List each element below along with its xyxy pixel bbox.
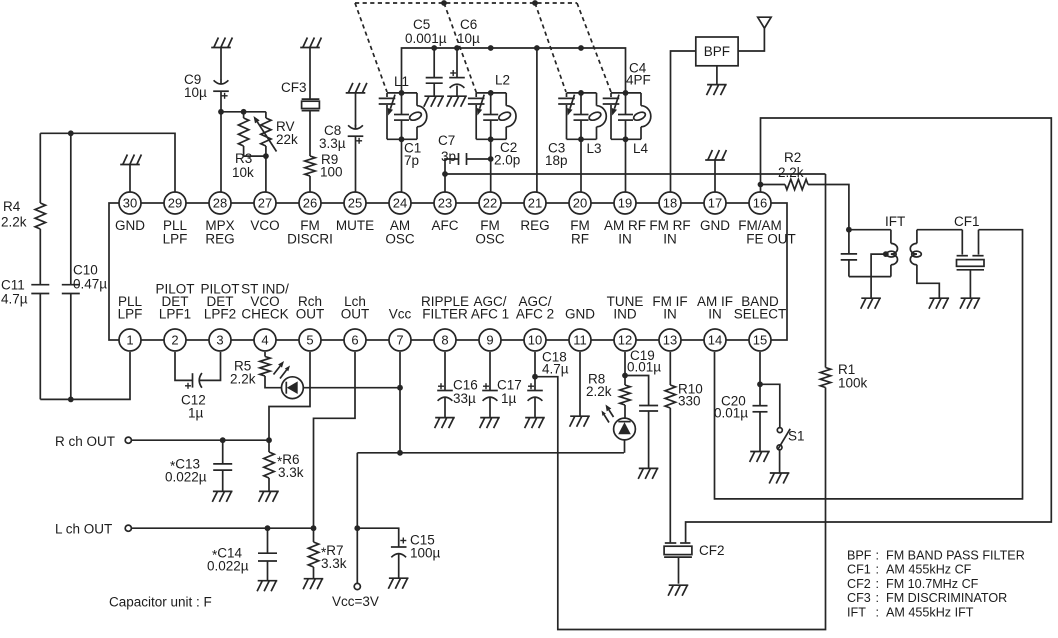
wire LED to Vcc line	[303, 387, 400, 389]
svg-text:27: 27	[258, 196, 272, 211]
svg-text:IN: IN	[708, 307, 722, 322]
pin 20 (FM RF)	[569, 192, 591, 247]
resistor R10	[665, 382, 703, 409]
svg-text:S1: S1	[788, 429, 805, 444]
resistor R5	[230, 357, 270, 387]
capacitor C10	[62, 263, 107, 294]
svg-text:IN: IN	[663, 232, 677, 247]
svg-text:0.001µ: 0.001µ	[405, 31, 447, 46]
resistor R2	[778, 150, 808, 190]
node L2 on bus	[488, 45, 494, 51]
ground (C14)	[257, 581, 277, 592]
svg-text:2.2k: 2.2k	[1, 215, 27, 230]
svg-text:FE OUT: FE OUT	[746, 232, 796, 247]
wire oscillator bus	[402, 48, 626, 93]
svg-text:24: 24	[393, 196, 407, 211]
wire pin 4 to R5	[264, 352, 266, 357]
svg-text:22k: 22k	[276, 132, 298, 147]
node Rch/C13	[220, 437, 226, 443]
legend	[847, 549, 1025, 620]
pin 8 (RIPPLE FILTER)	[421, 294, 469, 351]
wire to C15	[357, 528, 398, 547]
pin 15 (BAND SELECT)	[734, 294, 787, 351]
svg-text:3.3µ: 3.3µ	[319, 136, 346, 151]
ground (C6)	[447, 96, 467, 107]
resistor R8	[586, 372, 630, 406]
resistor R7	[308, 528, 346, 579]
wire pin 2 to C12	[175, 352, 193, 380]
svg-text:IND: IND	[613, 307, 637, 322]
svg-text:100µ: 100µ	[410, 546, 441, 561]
svg-text:3: 3	[216, 333, 223, 348]
svg-text:L3: L3	[587, 141, 602, 156]
svg-text:Capacitor unit : F: Capacitor unit : F	[109, 595, 212, 610]
svg-text:OSC: OSC	[475, 232, 505, 247]
svg-text:0.022µ: 0.022µ	[165, 470, 207, 485]
svg-text:L2: L2	[495, 73, 510, 88]
pin 25 (MUTE)	[336, 192, 374, 233]
svg-text:R4: R4	[3, 199, 21, 214]
resistor R1	[820, 362, 867, 391]
svg-text:7p: 7p	[404, 153, 419, 168]
svg-text:18p: 18p	[545, 153, 568, 168]
node Lch/R7	[311, 525, 317, 531]
wire pin 7 (Vcc) down	[399, 352, 401, 453]
resistor R3	[232, 112, 254, 180]
svg-text:FM 10.7MHz CF: FM 10.7MHz CF	[886, 577, 979, 591]
svg-text:4.7µ: 4.7µ	[1, 292, 28, 307]
svg-text:28: 28	[213, 196, 227, 211]
inductor L3 / capacitor tank	[558, 90, 606, 142]
pin 9 (AGC/ AFC 1)	[471, 294, 509, 351]
capacitor C15	[391, 533, 441, 579]
svg-text:4.7µ: 4.7µ	[542, 362, 569, 377]
svg-text:23: 23	[438, 196, 452, 211]
pin 13 (FM IF IN)	[652, 294, 687, 351]
ground (CF1)	[960, 298, 980, 309]
svg-text:AM 455kHz IFT: AM 455kHz IFT	[886, 605, 974, 619]
svg-text:33µ: 33µ	[453, 391, 476, 406]
wire pin 18 to BPF	[671, 51, 696, 192]
ground (pin 17)	[705, 150, 726, 160]
svg-text:20: 20	[573, 196, 587, 211]
svg-text:26: 26	[303, 196, 317, 211]
svg-text:L1: L1	[394, 74, 409, 89]
ground (C20)	[750, 452, 770, 463]
wire pin 16 feedback loop to CF2	[686, 118, 1052, 542]
capacitor C5	[405, 17, 447, 96]
ground (C8)	[346, 83, 367, 93]
svg-text:7: 7	[396, 333, 403, 348]
capacitor C7	[438, 133, 467, 165]
ground (pin 30)	[120, 155, 141, 165]
svg-text:DISCRI: DISCRI	[287, 232, 333, 247]
svg-text:5: 5	[306, 333, 313, 348]
svg-text:AFC 2: AFC 2	[516, 307, 554, 322]
pin 3 (PILOT DET LPF2)	[200, 282, 239, 352]
svg-text:8: 8	[441, 333, 448, 348]
wire pin 13 down	[669, 352, 671, 385]
ground (C13)	[212, 491, 232, 502]
LED (stereo indicator)	[274, 361, 304, 399]
wire AFC to C7	[445, 159, 459, 174]
wire IFT secondary to CF1	[917, 229, 962, 231]
ground (C18)	[525, 418, 545, 429]
svg-text:330: 330	[678, 394, 701, 409]
wire pin 6 to Lch line	[314, 352, 356, 528]
svg-text:R3: R3	[235, 151, 252, 166]
svg-text:0.01µ: 0.01µ	[714, 406, 748, 421]
pin 23 (AFC)	[432, 192, 459, 233]
node C10 bottom	[68, 397, 74, 403]
svg-text:C6: C6	[460, 17, 477, 32]
wire Vcc down to supply terminal	[356, 453, 358, 584]
wire pin 5 to Rch line	[269, 352, 310, 440]
ceramic filter CF1	[954, 214, 984, 298]
node pin15/S1	[757, 381, 763, 387]
ceramic discriminator CF3	[281, 80, 319, 111]
wire AFC line to R1	[445, 173, 826, 175]
pin 11 (GND)	[565, 307, 595, 352]
svg-text:21: 21	[528, 196, 542, 211]
wire pin 23 up (AFC)	[444, 174, 446, 192]
svg-text::: :	[876, 563, 880, 577]
svg-text:CF1: CF1	[847, 563, 871, 577]
svg-text:100k: 100k	[838, 376, 868, 391]
svg-text:BPF: BPF	[704, 44, 730, 59]
svg-text:IN: IN	[663, 307, 677, 322]
svg-text:LPF: LPF	[163, 232, 188, 247]
pin 4 (ST IND/ VCO CHECK)	[241, 282, 289, 352]
ground (C5)	[424, 96, 444, 107]
terminal L ch OUT	[55, 522, 131, 537]
svg-text:15: 15	[753, 333, 767, 348]
svg-text:LPF: LPF	[118, 307, 143, 322]
LED (tune indicator)	[602, 405, 636, 440]
capacitor C12	[181, 373, 206, 421]
wire C9 to pin 28	[220, 91, 222, 192]
capacitor C8	[319, 123, 363, 151]
wire BPF to antenna	[738, 28, 764, 51]
pin 19 (AM RF IN)	[604, 192, 646, 247]
svg-text:3.3k: 3.3k	[278, 465, 304, 480]
antenna	[758, 17, 771, 28]
pin 26 (FM DISCRI)	[287, 192, 333, 247]
wire R2 to IFT	[808, 185, 849, 230]
node Vcc/C15 branch	[354, 525, 360, 531]
svg-text:9: 9	[486, 333, 493, 348]
svg-text:29: 29	[168, 196, 182, 211]
pin 28 (MPX REG)	[205, 192, 234, 247]
ceramic filter CF2	[664, 543, 724, 584]
svg-text:1: 1	[126, 333, 133, 348]
svg-text:1µ: 1µ	[501, 391, 517, 406]
wire bottom of PLL network to pin 1	[40, 352, 130, 399]
svg-text:17: 17	[708, 196, 722, 211]
ground (BPF)	[707, 85, 727, 96]
transformer IFT	[841, 214, 940, 298]
wire C19 branch	[625, 376, 649, 406]
pin 30 (GND)	[115, 192, 145, 233]
svg-text:10k: 10k	[232, 165, 254, 180]
ground (IFT secondary)	[929, 298, 949, 309]
svg-text:FM DISCRIMINATOR: FM DISCRIMINATOR	[886, 591, 1007, 605]
ground (C17)	[480, 418, 500, 429]
pin 29 (PLL LPF)	[163, 192, 188, 247]
pin 14 (AM IF IN)	[697, 294, 733, 351]
capacitor C9	[184, 72, 229, 100]
wire BPF to ground	[716, 66, 718, 85]
svg-text:OUT: OUT	[296, 307, 325, 322]
svg-text:C7: C7	[438, 133, 455, 148]
capacitor C6	[449, 17, 480, 96]
svg-text:C5: C5	[413, 17, 430, 32]
wire Vcc rail horizontal	[357, 452, 624, 454]
wire L1 to pin 24	[401, 139, 403, 192]
pin 18 (FM RF IN)	[649, 192, 690, 247]
svg-text:2.2k: 2.2k	[230, 372, 256, 387]
svg-text:11: 11	[573, 333, 587, 348]
svg-text:12: 12	[618, 333, 632, 348]
wire L3 to pin 20	[580, 139, 582, 192]
svg-text:6: 6	[351, 333, 358, 348]
inductor L1 / capacitor tank	[379, 90, 427, 142]
node R3/RV takeoff	[218, 109, 224, 115]
capacitor C16	[437, 352, 478, 418]
pin 12 (TUNE IND)	[607, 294, 644, 351]
wire L2 to pin 22	[490, 139, 492, 192]
ground (S1)	[769, 473, 789, 484]
variable resistor RV	[254, 112, 299, 156]
svg-text:4: 4	[261, 333, 268, 348]
svg-text:GND: GND	[115, 218, 145, 233]
wire CF3 to R9	[309, 111, 311, 156]
svg-text:L4: L4	[633, 141, 649, 156]
node C10 top	[68, 130, 74, 136]
svg-text:19: 19	[618, 196, 632, 211]
pin 21 (REG)	[520, 192, 549, 233]
svg-text::: :	[876, 577, 880, 591]
svg-text:4PF: 4PF	[626, 73, 651, 88]
svg-text:3p: 3p	[441, 149, 456, 164]
svg-text:1µ: 1µ	[188, 406, 204, 421]
pin 16 (FM/AM FE OUT)	[738, 192, 796, 247]
wire AFC line down to R1	[825, 174, 827, 368]
wire R8 to LED	[624, 405, 626, 418]
svg-text:CF2: CF2	[847, 577, 871, 591]
svg-text:CF3: CF3	[281, 80, 307, 95]
svg-text:VCO: VCO	[250, 218, 279, 233]
node Vcc rail	[397, 450, 403, 456]
svg-text::: :	[876, 549, 880, 563]
capacitor C11	[1, 278, 49, 307]
pin 6 (Lch OUT)	[341, 294, 370, 351]
node C5 on bus	[431, 45, 437, 51]
wire ground to CF3	[309, 48, 311, 100]
svg-text:REG: REG	[205, 232, 234, 247]
ground (CF3)	[300, 38, 321, 48]
node C6 on bus	[454, 45, 460, 51]
svg-text:2.2k: 2.2k	[586, 384, 612, 399]
band pass filter BPF	[696, 37, 738, 66]
svg-text:13: 13	[663, 333, 677, 348]
svg-text:Vcc=3V: Vcc=3V	[332, 594, 379, 609]
svg-text:22: 22	[483, 196, 497, 211]
svg-text:10µ: 10µ	[184, 85, 207, 100]
capacitor C19	[627, 348, 661, 468]
svg-text:100: 100	[320, 165, 343, 180]
node pin16/R2	[758, 182, 764, 188]
svg-text:AFC 1: AFC 1	[471, 307, 509, 322]
pin 22 (FM OSC)	[475, 192, 505, 247]
wire pin 12 down	[624, 352, 626, 385]
svg-text:IFT: IFT	[885, 214, 905, 229]
wire LED to Vcc rail	[624, 440, 626, 453]
svg-text:IN: IN	[618, 232, 632, 247]
terminal Vcc=3V	[332, 583, 379, 609]
resistor R4	[1, 199, 46, 230]
wire Lch line	[131, 527, 313, 529]
svg-text:C10: C10	[73, 263, 98, 278]
svg-text:C11: C11	[1, 278, 25, 293]
capacitor C18	[527, 350, 569, 418]
svg-text:R2: R2	[784, 150, 801, 165]
wire Rch line	[131, 439, 269, 441]
svg-text:2.0p: 2.0p	[494, 153, 520, 168]
pin 17 (GND)	[700, 192, 730, 233]
wire C10 branch	[70, 133, 72, 284]
svg-text:18: 18	[663, 196, 677, 211]
pin 27 (VCO)	[250, 192, 279, 233]
svg-text:OUT: OUT	[341, 307, 370, 322]
wire ground to pin 17	[714, 160, 716, 192]
pin 2 (PILOT DET LPF1)	[155, 282, 194, 352]
svg-text:16: 16	[753, 196, 767, 211]
switch S1	[777, 428, 805, 450]
wire to pin 27	[265, 156, 267, 192]
svg-text:25: 25	[348, 196, 362, 211]
inductor L2 / capacitor tank	[468, 90, 516, 142]
ground (R6)	[259, 491, 279, 502]
svg-text:30: 30	[123, 196, 137, 211]
svg-text:IFT: IFT	[847, 605, 866, 619]
svg-text:LPF1: LPF1	[159, 307, 191, 322]
terminal R ch OUT	[55, 434, 131, 449]
node pin12/C19	[622, 373, 628, 379]
wire pin29 up-left to PLL-LPF network	[40, 133, 175, 192]
svg-text:10µ: 10µ	[457, 31, 480, 46]
capacitor C20	[714, 394, 768, 452]
wire to switch S1	[760, 384, 780, 427]
wire C7 to FM-OSC line	[467, 158, 491, 160]
resistor R6	[264, 440, 304, 491]
wire ground to C8	[355, 93, 357, 127]
node LED/Vcc	[397, 385, 403, 391]
svg-text:FM BAND PASS FILTER: FM BAND PASS FILTER	[886, 549, 1025, 563]
node Rch/R6	[266, 437, 272, 443]
node AFC	[442, 171, 448, 177]
svg-text:BPF: BPF	[847, 549, 872, 563]
wire pin 11 to ground	[579, 352, 581, 416]
svg-text:CHECK: CHECK	[241, 307, 288, 322]
wire R5 to LED	[265, 376, 282, 388]
svg-text:2: 2	[171, 333, 178, 348]
ground (C15)	[388, 578, 408, 589]
ground (pin 11)	[570, 416, 590, 427]
pin 10 (AGC/ AFC 2)	[516, 294, 554, 351]
node RV top	[241, 109, 247, 115]
ground (IFT tap)	[861, 298, 881, 309]
node C7/pin22	[488, 156, 494, 162]
capacitor C17	[482, 352, 522, 418]
capacitor C13	[165, 440, 232, 491]
pin 7 (Vcc)	[389, 307, 412, 352]
svg-text:AFC: AFC	[432, 218, 459, 233]
svg-text:R ch OUT: R ch OUT	[55, 434, 115, 449]
wire R4/C11 branch	[39, 133, 41, 203]
svg-text:FILTER: FILTER	[422, 307, 468, 322]
ground (CF2)	[668, 585, 688, 596]
wire ground to C9	[220, 48, 222, 81]
IC body outline (30-pin)	[109, 203, 787, 340]
svg-text:0.022µ: 0.022µ	[207, 559, 249, 574]
svg-text:SELECT: SELECT	[734, 307, 787, 322]
pin 24 (AM OSC)	[385, 192, 415, 247]
svg-text:CF1: CF1	[954, 214, 980, 229]
ground (C9)	[211, 38, 232, 48]
wire L4 to pin 19	[625, 139, 627, 192]
wire R10 to CF2	[669, 408, 671, 542]
svg-text:LPF2: LPF2	[204, 307, 236, 322]
svg-text:Vcc: Vcc	[389, 307, 412, 322]
wire REG bus to pin 21	[536, 48, 538, 192]
svg-text::: :	[876, 591, 880, 605]
svg-text:MUTE: MUTE	[336, 218, 374, 233]
svg-text:GND: GND	[700, 218, 730, 233]
svg-text:3.3k: 3.3k	[321, 556, 347, 571]
wire C8 to pin 25	[355, 136, 357, 192]
gang line (dashed) of tuning capacitors	[355, 0, 611, 93]
wire pin 15 down	[759, 352, 761, 406]
wire S1 to ground	[779, 450, 781, 473]
inductor L4 / capacitor tank	[603, 90, 651, 142]
resistor R9	[305, 152, 343, 180]
pin 5 (Rch OUT)	[296, 294, 325, 351]
wire pin30 to ground	[129, 165, 131, 193]
capacitor C14	[207, 528, 277, 581]
svg-text:14: 14	[708, 333, 722, 348]
pin 1 (PLL LPF)	[118, 294, 143, 351]
node L3 on bus	[578, 45, 584, 51]
wire R1 to AGC/AFC2 (pin 10)	[535, 377, 826, 630]
wire node to R3 and RV tops	[221, 111, 266, 113]
ground (C16)	[435, 418, 455, 429]
svg-text:10: 10	[528, 333, 542, 348]
wire CF1 out to pin 14	[715, 230, 1023, 499]
wire R3 bottom join	[244, 155, 266, 157]
svg-text::: :	[876, 605, 880, 619]
svg-text:GND: GND	[565, 307, 595, 322]
svg-text:CF3: CF3	[847, 591, 871, 605]
node Lch/C14	[265, 525, 271, 531]
ground (R7)	[303, 579, 323, 590]
svg-text:0.47µ: 0.47µ	[73, 277, 107, 292]
svg-text:RF: RF	[571, 232, 589, 247]
wire C12 to pin 3	[200, 352, 221, 380]
svg-text:AM 455kHz CF: AM 455kHz CF	[886, 563, 972, 577]
ground (C19)	[638, 468, 658, 479]
svg-text:0.01µ: 0.01µ	[627, 360, 661, 375]
